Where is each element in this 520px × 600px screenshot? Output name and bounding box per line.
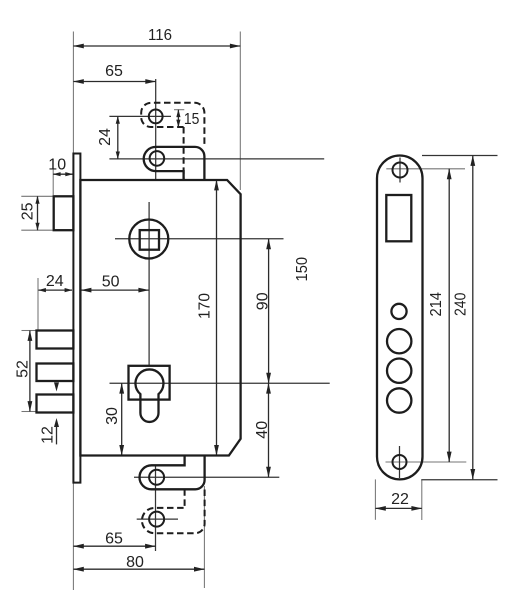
svg-text:116: 116	[148, 27, 172, 44]
svg-text:65: 65	[105, 530, 123, 547]
svg-text:80: 80	[126, 554, 144, 571]
svg-text:240: 240	[453, 292, 470, 316]
svg-text:30: 30	[104, 407, 121, 425]
svg-text:65: 65	[105, 63, 123, 80]
svg-text:15: 15	[184, 111, 200, 128]
svg-text:24: 24	[97, 128, 114, 146]
svg-text:22: 22	[391, 491, 409, 508]
svg-text:10: 10	[48, 157, 66, 174]
svg-text:12: 12	[39, 426, 56, 444]
svg-text:90: 90	[254, 292, 271, 310]
svg-text:214: 214	[428, 292, 445, 317]
svg-text:150: 150	[294, 257, 311, 282]
svg-text:25: 25	[20, 202, 37, 220]
svg-text:170: 170	[196, 293, 213, 319]
svg-text:52: 52	[14, 360, 31, 378]
svg-text:24: 24	[46, 273, 64, 290]
svg-text:50: 50	[102, 273, 120, 290]
svg-text:40: 40	[254, 421, 271, 439]
